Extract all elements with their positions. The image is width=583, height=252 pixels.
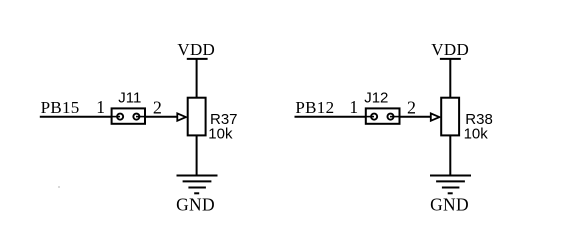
ground symbol (right) xyxy=(430,176,471,194)
power symbol VDD (right) xyxy=(440,59,461,98)
ground label GND (left) xyxy=(176,195,215,215)
power label VDD (left) xyxy=(177,40,215,59)
svg-text:PB15: PB15 xyxy=(41,98,80,117)
power label VDD (right) xyxy=(431,40,469,59)
ground label GND (right) xyxy=(430,195,469,215)
ground symbol (left) xyxy=(177,176,218,194)
wire PB15 to jumper J11 xyxy=(40,116,111,118)
power symbol VDD (left) xyxy=(187,59,208,98)
potentiometer R37 body xyxy=(188,98,206,136)
wire R37 to ground xyxy=(196,135,198,176)
svg-text:GND: GND xyxy=(430,195,469,215)
svg-text:2: 2 xyxy=(153,98,162,118)
jumper J12 body xyxy=(366,108,400,123)
designator J11 xyxy=(118,90,141,107)
wire J12 to R38 wiper xyxy=(400,116,432,118)
wiper arrow of R38 xyxy=(431,113,440,120)
designator J12 xyxy=(364,90,388,107)
svg-text:GND: GND xyxy=(176,195,215,215)
value 10k (R37) xyxy=(208,126,233,143)
designator R37 xyxy=(210,111,238,128)
svg-text:PB12: PB12 xyxy=(295,98,334,117)
svg-text:10k: 10k xyxy=(208,126,233,143)
svg-text:VDD: VDD xyxy=(431,40,469,59)
net label PB12 xyxy=(295,98,334,117)
wiper arrow of R37 xyxy=(177,113,186,120)
svg-text:1: 1 xyxy=(349,97,358,117)
J12 pad pin 1 xyxy=(366,114,377,120)
svg-text:J11: J11 xyxy=(118,90,141,107)
pin number 2 (J12 pin 2) xyxy=(407,98,416,118)
J12 pad pin 2 xyxy=(387,114,399,120)
wire R38 to ground xyxy=(449,135,451,176)
svg-text:10k: 10k xyxy=(464,126,489,143)
designator R38 xyxy=(465,111,493,128)
jumper J11 body xyxy=(112,108,145,123)
potentiometer R38 body xyxy=(441,98,459,136)
pin number 1 (J12 pin 1) xyxy=(349,97,358,117)
J11 pad pin 1 xyxy=(112,114,123,120)
J11 pad pin 2 xyxy=(133,114,145,120)
svg-text:J12: J12 xyxy=(364,90,388,107)
pin number 1 (J11 pin 1) xyxy=(96,97,105,117)
value 10k (R38) xyxy=(464,126,489,143)
wire J11 to R37 wiper xyxy=(145,116,178,118)
svg-text:VDD: VDD xyxy=(177,40,215,59)
pin number 2 (J11 pin 2) xyxy=(153,98,162,118)
wire PB12 to jumper J12 xyxy=(295,116,366,118)
svg-text:1: 1 xyxy=(96,97,105,117)
svg-text:2: 2 xyxy=(407,98,416,118)
net label PB15 xyxy=(41,98,80,117)
faint grid dot xyxy=(58,186,60,188)
